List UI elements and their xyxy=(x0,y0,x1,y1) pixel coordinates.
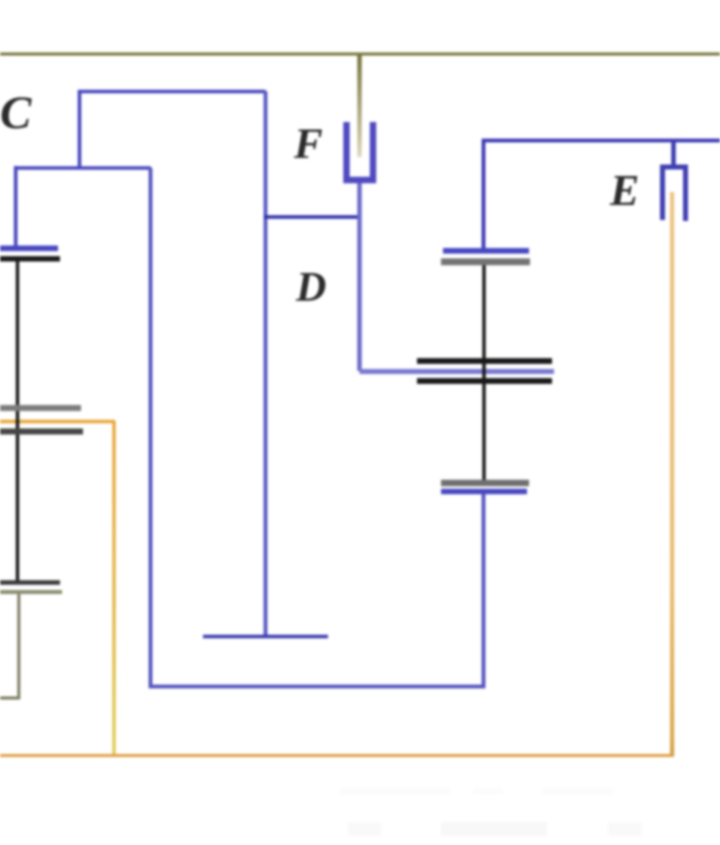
svg-text:F: F xyxy=(293,121,323,168)
svg-text:D: D xyxy=(295,265,326,311)
svg-text:C: C xyxy=(0,87,32,139)
svg-text:E: E xyxy=(609,166,639,215)
